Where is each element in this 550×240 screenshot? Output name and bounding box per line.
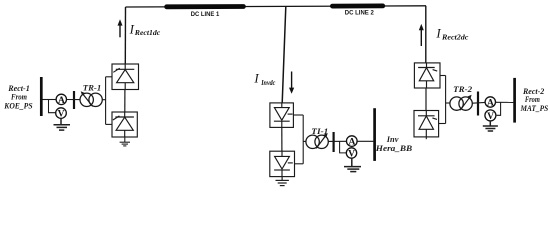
label: Inv Hera_BB	[375, 135, 413, 153]
svg-text:I: I	[253, 71, 259, 86]
voltmeter V (inverter feeder)	[346, 148, 356, 160]
wire: ammeter to busbar (inverter)	[357, 140, 373, 142]
busbar: MAT_PS station	[513, 78, 516, 123]
wire: rectifier-2 valve AC-side connections	[439, 76, 450, 124]
svg-text:V: V	[487, 112, 494, 122]
ground: below rectifier-1 valves	[120, 137, 130, 146]
thyristor valve V1 (rectifier-1 upper): box + thyristor pointing up	[112, 64, 139, 90]
ammeter A (rectifier-2 feeder)	[485, 97, 495, 109]
ammeter A (rectifier-1 feeder)	[56, 94, 66, 106]
svg-text:I: I	[129, 21, 135, 36]
label I_Rect2dc	[435, 26, 469, 42]
wire: voltmeter branch (rect-2, right side)	[497, 102, 501, 115]
transformer TR-2 (two overlapping circles with tap-changer arrow)	[450, 95, 472, 111]
svg-text:A: A	[348, 138, 355, 148]
wire: transformer TR-2 to ammeter	[472, 101, 485, 104]
wire: inverter DC drop	[282, 7, 286, 103]
wire: stub below rectifier-2 valves	[425, 137, 427, 139]
ground: below voltmeter (rect-1)	[54, 118, 71, 130]
wire: between valve boxes of inverter	[281, 127, 283, 151]
svg-text:TI-1: TI-1	[311, 127, 328, 136]
voltmeter V (rectifier-1 feeder)	[56, 108, 67, 120]
current arrow I_Rect1dc (up)	[118, 19, 123, 37]
label: Rect-1 From KOE_PS	[3, 84, 33, 110]
label I_Rect1dc	[129, 21, 161, 37]
wire: voltmeter branch (rect-1)	[49, 100, 56, 113]
svg-text:A: A	[487, 98, 494, 108]
svg-text:V: V	[348, 149, 355, 159]
wire: ammeter to busbar (rect-2)	[496, 101, 514, 103]
voltmeter V (rectifier-2 feeder)	[485, 110, 496, 122]
ground: below voltmeter (rect-2)	[483, 121, 498, 131]
svg-text:TR-1: TR-1	[83, 84, 101, 93]
wire: transformer TI-1 to ammeter	[328, 140, 346, 142]
wire: top DC bus	[126, 6, 427, 7]
wire: between valve boxes of rectifier-1	[124, 90, 126, 113]
wire: rectifier-1 valve AC-side connections	[102, 77, 112, 125]
ground: below inverter valves	[276, 177, 289, 186]
current arrow I_Rect2dc (up)	[419, 24, 424, 46]
svg-text:MAT_PS: MAT_PS	[520, 104, 549, 113]
svg-text:I: I	[435, 26, 441, 41]
breaker bar (thick tick) on rectifier-1 AC feeder	[73, 91, 75, 109]
thyristor valve V4 (inverter lower): box + thyristor pointing down	[270, 151, 295, 176]
svg-text:Hera_BB: Hera_BB	[375, 144, 413, 153]
wire: inverter valve AC-side connections	[293, 115, 306, 164]
ground: below voltmeter (inverter)	[344, 158, 361, 171]
thyristor valve V5 (rectifier-2 upper): box + thyristor pointing up	[414, 63, 440, 88]
transformer TI-1 (two overlapping circles with tap-changer arrow)	[306, 133, 328, 149]
ammeter A (inverter feeder)	[347, 136, 358, 148]
svg-text:Invdc: Invdc	[260, 79, 276, 87]
thyristor valve V3 (inverter upper): box + thyristor pointing down	[270, 103, 294, 128]
svg-text:Rect2dc: Rect2dc	[441, 33, 469, 41]
busbar: KOE_PS station	[40, 77, 43, 116]
wire: voltmeter branch (inverter)	[340, 141, 347, 153]
wire: busbar to ammeter	[43, 99, 57, 101]
wire: rectifier-2 DC riser	[425, 6, 427, 63]
svg-text:From: From	[10, 92, 27, 101]
svg-text:DC LINE 1: DC LINE 1	[191, 11, 220, 18]
svg-text:TR-2: TR-2	[453, 85, 472, 94]
DC line 1 (thick transmission-line bar) with label DC LINE 1	[167, 7, 244, 19]
breaker bar (thick tick) on inverter AC feeder	[333, 132, 335, 152]
thyristor valve V6 (rectifier-2 lower): box + thyristor pointing up	[414, 111, 439, 137]
busbar: Inv Hera BB	[373, 108, 376, 161]
transformer TR-1 (two overlapping circles with tap-changer arrow)	[80, 91, 102, 106]
svg-text:Inv: Inv	[386, 135, 399, 144]
svg-text:Rect1dc: Rect1dc	[134, 29, 161, 37]
breaker bar (thick tick) on rectifier-2 AC feeder	[477, 92, 479, 116]
DC line 2 (thick transmission-line bar) with label DC LINE 2	[332, 6, 382, 17]
svg-text:V: V	[58, 110, 65, 120]
svg-text:KOE_PS: KOE_PS	[3, 101, 33, 110]
thyristor valve V2 (rectifier-1 lower): box + thyristor pointing up	[112, 112, 137, 137]
wire: between valve boxes of rectifier-2	[425, 88, 427, 111]
svg-text:A: A	[58, 96, 65, 106]
wire: ammeter to transformer TR-1	[67, 99, 81, 101]
wire: rectifier-1 DC riser	[124, 7, 126, 64]
svg-text:DC LINE 2: DC LINE 2	[345, 10, 374, 17]
current arrow I_Invdc (down)	[289, 72, 294, 94]
label: Rect-2 From MAT_PS	[520, 87, 549, 113]
label I_Invdc	[253, 71, 276, 88]
